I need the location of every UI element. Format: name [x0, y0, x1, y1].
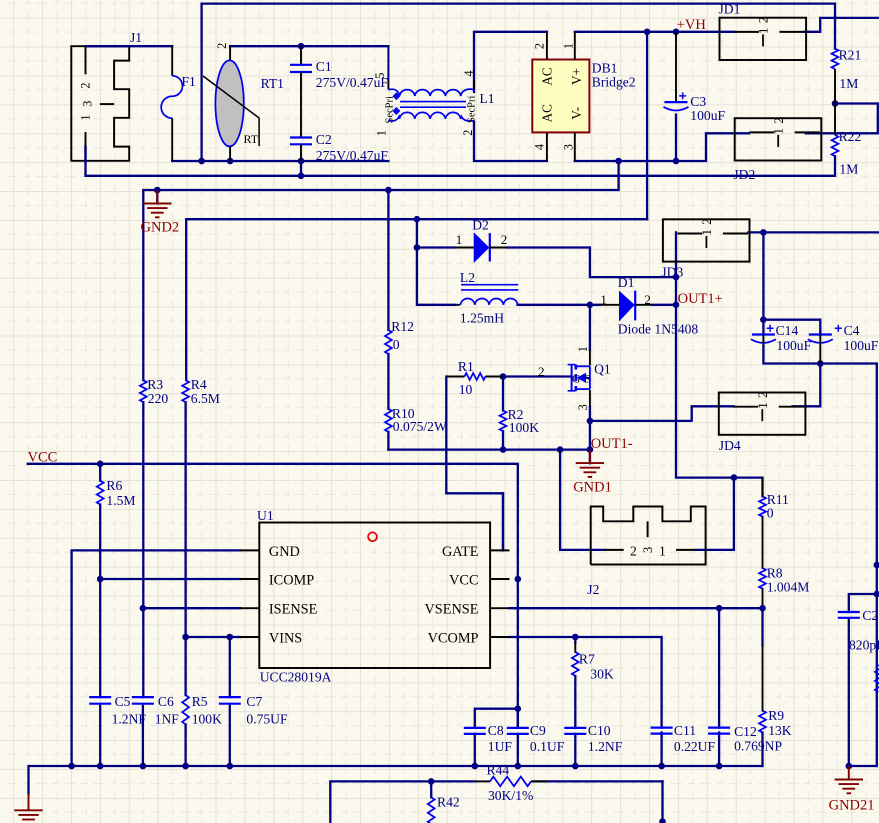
wire R8 bottom / R9 top joint	[762, 589, 764, 609]
resistor R4	[182, 377, 220, 406]
svg-text:+VH: +VH	[677, 17, 707, 33]
svg-text:C2: C2	[862, 608, 878, 623]
svg-text:4: 4	[462, 71, 476, 77]
wire Q1 source to OUT1- junction	[589, 391, 591, 407]
svg-text:U1: U1	[257, 508, 274, 523]
resistor R1	[446, 359, 503, 397]
svg-text:100K: 100K	[509, 420, 539, 435]
svg-text:30K: 30K	[590, 667, 614, 682]
wire GND1 stub	[589, 450, 591, 464]
svg-text:1: 1	[755, 402, 770, 409]
svg-text:R6: R6	[106, 478, 122, 493]
wire VCC pin stub link and column down to C9	[517, 579, 519, 728]
capacitor C14	[751, 323, 812, 353]
svg-text:2: 2	[538, 364, 545, 379]
wire OUT1- node to GND1	[589, 421, 591, 450]
svg-text:C6: C6	[158, 694, 174, 709]
capacitor C10	[564, 723, 622, 754]
svg-text:VCC: VCC	[28, 450, 58, 466]
wire OUT1- rail R10 to GND1	[388, 448, 590, 450]
wire JD3 pin1 riser to OUT1+ and down to y477	[676, 232, 763, 496]
wire R44 feedback rail	[330, 781, 475, 823]
wire bottom ground rail	[29, 766, 763, 794]
ground GND21	[829, 766, 875, 814]
wire leg to D2 anode	[417, 246, 455, 248]
wire R9 bottom to rail	[761, 733, 763, 767]
capacitor C3	[664, 32, 726, 123]
wire VSENSE rail to R8/R9 junction	[510, 607, 763, 609]
svg-text:L2: L2	[460, 270, 475, 285]
svg-text:GND1: GND1	[573, 480, 612, 496]
wire JD2 pin2 to right edge to R21/R22 junction wire	[806, 104, 878, 134]
svg-text:100uF: 100uF	[690, 108, 725, 123]
svg-text:D2: D2	[472, 218, 489, 233]
svg-text:C8: C8	[488, 723, 504, 738]
svg-text:5: 5	[373, 73, 387, 79]
svg-text:V+: V+	[569, 68, 584, 85]
junction dots	[298, 43, 305, 50]
connector J2	[587, 507, 705, 598]
wire J2 pin1 riser from OUT1+ y477 wire	[695, 478, 734, 550]
thermistor RT1	[203, 43, 284, 161]
wire R10/R12 interlink	[387, 354, 389, 409]
svg-text:GND2: GND2	[141, 220, 180, 236]
capacitor C12	[708, 724, 782, 754]
wire JD3 pin2 to right edge	[748, 231, 879, 233]
svg-text:C2: C2	[316, 132, 332, 147]
svg-text:0.22UF: 0.22UF	[674, 739, 716, 754]
svg-text:2: 2	[215, 43, 229, 49]
svg-text:F1: F1	[182, 74, 196, 89]
svg-text:SecPri: SecPri	[467, 96, 478, 123]
wire V- junction leg down to GND2 rail	[143, 161, 618, 380]
svg-text:1: 1	[756, 27, 771, 34]
wire ISENSE pin wire	[143, 607, 240, 609]
wire R4/R5 column through VINS	[184, 402, 186, 695]
resistor R21	[832, 48, 862, 104]
resistor R22	[832, 104, 862, 177]
ground GND2	[141, 190, 180, 236]
svg-text:J1: J1	[130, 30, 142, 45]
svg-text:1: 1	[576, 346, 590, 352]
wire D1 cathode to OUT1+	[652, 304, 676, 306]
svg-text:RT: RT	[244, 132, 259, 146]
svg-text:100uF: 100uF	[776, 338, 811, 353]
svg-text:1.25mH: 1.25mH	[460, 311, 504, 326]
svg-text:1: 1	[659, 544, 666, 559]
wire ICOMP pin wire	[100, 578, 240, 580]
diode D2	[455, 218, 507, 262]
wire RT1 top to C1 to L1 pin5	[230, 45, 388, 47]
capacitor C1	[290, 46, 388, 137]
svg-text:R44: R44	[487, 763, 510, 778]
resistor R7	[572, 652, 614, 682]
wire C14/C4 bottom rail to right edge	[763, 346, 876, 766]
wire Q1 drain	[589, 305, 591, 350]
capacitor C6	[132, 694, 179, 727]
wire C5 bottom	[99, 706, 101, 766]
svg-text:GATE: GATE	[442, 544, 479, 560]
svg-text:ICOMP: ICOMP	[269, 573, 314, 589]
wire GND pin wire	[72, 550, 240, 766]
wire GATE pin riser	[502, 493, 504, 550]
svg-text:AC: AC	[540, 67, 555, 86]
svg-text:R1: R1	[458, 359, 474, 374]
resistor edge partial	[875, 665, 879, 692]
svg-text:R42: R42	[437, 795, 460, 810]
svg-text:JD4: JD4	[719, 438, 741, 453]
svg-text:C11: C11	[674, 723, 696, 738]
wire C12 column	[718, 608, 720, 727]
svg-text:JD3: JD3	[661, 265, 683, 280]
wire C14/C4 top link	[763, 320, 820, 335]
wire +VH leg down to rail219	[646, 32, 648, 219]
resistor R42	[428, 795, 460, 823]
wire J1 pin2 to fuse F1	[86, 45, 173, 47]
svg-text:VCOMP: VCOMP	[428, 631, 479, 647]
wire JD4 pin2 riser to cap bottom rail	[793, 364, 821, 407]
wire D2/L2 input leg	[417, 219, 455, 305]
svg-text:3: 3	[576, 404, 590, 410]
diode D1	[600, 275, 698, 337]
svg-text:1: 1	[79, 114, 93, 120]
wire L2 to Q1 drain / D1 anode node	[518, 304, 601, 306]
jumper JD1	[719, 2, 807, 61]
jumper JD4	[719, 392, 806, 453]
svg-text:UCC28019A: UCC28019A	[260, 670, 332, 685]
capacitor C2 input	[290, 132, 388, 163]
svg-text:C5: C5	[115, 694, 131, 709]
wire C8/C9 bottoms	[474, 734, 476, 766]
svg-text:C7: C7	[246, 694, 262, 709]
svg-text:V-: V-	[569, 107, 584, 120]
wire R12 top leg from GND2 rail	[387, 190, 389, 330]
wire L1 pin4 to DB1 pin2	[474, 32, 547, 92]
svg-text:C14: C14	[776, 323, 799, 338]
wire C8 top link from C9 column	[475, 709, 518, 728]
svg-text:3: 3	[562, 144, 576, 150]
svg-text:1M: 1M	[839, 76, 858, 91]
svg-text:J2: J2	[587, 582, 599, 597]
wire J1 pin1 bottom rail to R22 bottom	[86, 147, 836, 176]
svg-text:OUT1-: OUT1-	[591, 436, 633, 452]
svg-text:1: 1	[771, 128, 786, 135]
wire VCOMP rail to R7 and C11	[510, 637, 662, 728]
svg-text:VINS: VINS	[269, 631, 302, 647]
capacitor C5	[89, 694, 146, 727]
svg-text:1.2NF: 1.2NF	[588, 739, 623, 754]
capacitor C11	[651, 723, 716, 754]
svg-text:JD1: JD1	[719, 2, 741, 17]
wire gate drive R1 right to Q1 gate	[503, 375, 572, 377]
svg-text:4: 4	[532, 144, 546, 150]
resistor R10	[385, 406, 447, 434]
svg-text:Diode 1N5408: Diode 1N5408	[618, 322, 699, 337]
svg-text:2: 2	[644, 292, 651, 307]
wire R7 column to C10	[574, 637, 576, 643]
svg-text:DB1: DB1	[592, 61, 618, 76]
svg-text:1: 1	[562, 43, 576, 49]
svg-text:1: 1	[456, 232, 463, 247]
svg-text:VSENSE: VSENSE	[424, 602, 478, 618]
wire C14 riser from JD3 wire	[762, 232, 764, 334]
svg-text:1NF: 1NF	[155, 712, 180, 727]
svg-text:0.769NP: 0.769NP	[734, 739, 782, 754]
capacitor C8	[464, 723, 513, 754]
MOSFET Q1	[538, 346, 611, 410]
svg-text:3: 3	[641, 547, 655, 553]
svg-text:R4: R4	[191, 377, 207, 392]
resistor R2	[500, 407, 540, 435]
svg-text:220: 220	[148, 391, 169, 406]
resistor R8	[759, 566, 809, 595]
wire C3 bottom lead to V- rail	[675, 115, 677, 162]
resistor R11	[759, 478, 789, 521]
wire R2 column	[502, 377, 504, 411]
svg-text:C1: C1	[316, 59, 332, 74]
svg-text:2: 2	[755, 392, 770, 399]
svg-text:2: 2	[756, 17, 771, 24]
svg-text:R8: R8	[767, 566, 783, 581]
wire J2 pin2 riser from OUT1- rail	[560, 450, 604, 550]
wire VCC rail	[28, 464, 518, 579]
wire C2 bottom to GND21 rail	[849, 619, 877, 767]
svg-text:RT1: RT1	[261, 76, 284, 91]
svg-text:0: 0	[393, 337, 400, 352]
svg-text:2: 2	[461, 130, 475, 136]
wire DB1 pin3 V- rail to JD2 riser	[575, 133, 749, 161]
inductor L2	[455, 270, 518, 326]
svg-text:C3: C3	[690, 94, 706, 109]
fuse F1	[161, 46, 196, 161]
svg-text:30K/1%: 30K/1%	[488, 788, 533, 803]
svg-text:2: 2	[501, 232, 508, 247]
svg-text:10: 10	[459, 382, 473, 397]
resistor R3	[140, 377, 168, 406]
resistor R5	[182, 694, 222, 727]
svg-text:L1: L1	[480, 91, 495, 106]
wire C7 leg from VINS	[229, 637, 231, 697]
svg-text:OUT1+: OUT1+	[678, 291, 723, 307]
resistor R12	[385, 319, 414, 354]
wire rail 219 to R4 leg	[186, 219, 647, 380]
svg-text:C4: C4	[844, 323, 860, 338]
svg-text:ISENSE: ISENSE	[269, 602, 318, 618]
svg-text:R22: R22	[839, 129, 862, 144]
wire R6 column VCC to ICOMP to C5	[99, 464, 101, 481]
svg-text:0: 0	[767, 506, 774, 521]
svg-text:100K: 100K	[192, 712, 222, 727]
capacitor C9	[507, 723, 565, 754]
svg-text:2: 2	[532, 43, 546, 49]
svg-text:1: 1	[699, 229, 714, 236]
svg-text:R12: R12	[391, 319, 414, 334]
connector J1	[71, 30, 142, 162]
resistor R6	[97, 478, 136, 508]
capacitor C4	[808, 323, 879, 364]
svg-text:GND21: GND21	[829, 798, 875, 814]
svg-text:Q1: Q1	[594, 362, 611, 377]
common-mode choke L1	[373, 32, 495, 161]
resistor R44	[475, 763, 547, 804]
wire R42 leg	[430, 781, 432, 797]
svg-text:R21: R21	[839, 48, 862, 63]
svg-text:D1: D1	[618, 275, 635, 290]
ground bottom-left	[28, 794, 30, 811]
svg-text:100uF: 100uF	[844, 338, 879, 353]
svg-text:R3: R3	[147, 377, 163, 392]
svg-text:13K: 13K	[768, 723, 792, 738]
svg-text:C9: C9	[530, 723, 546, 738]
wire OUT1- to JD4 pin1	[590, 406, 734, 421]
capacitor C7	[219, 694, 288, 727]
svg-text:1.004M: 1.004M	[767, 580, 810, 595]
svg-text:6.5M: 6.5M	[191, 391, 220, 406]
wire GND2 stub	[156, 190, 158, 204]
svg-text:3: 3	[80, 101, 94, 107]
bridge rectifier DB1	[532, 32, 635, 161]
svg-text:AC: AC	[540, 104, 555, 123]
IC U1 UCC28019A	[240, 508, 510, 685]
svg-text:1: 1	[600, 292, 607, 307]
svg-text:275V/0.47uF: 275V/0.47uF	[316, 148, 389, 163]
svg-text:2: 2	[630, 544, 637, 559]
svg-text:SecPri: SecPri	[385, 96, 396, 123]
svg-text:0.075/2W: 0.075/2W	[393, 419, 447, 434]
wire AC rail F1/RT1/C2 bottoms to L1 pin1	[172, 160, 388, 162]
jumper JD2	[733, 117, 821, 182]
wire D2 cathode to OUT1+ node	[507, 248, 676, 278]
svg-text:GND: GND	[269, 544, 300, 560]
wire C2 bottom link between rails	[300, 161, 302, 176]
wire R1 left leg to GATE pin	[446, 377, 503, 551]
svg-text:2: 2	[771, 117, 786, 124]
svg-text:1M: 1M	[839, 162, 858, 177]
wire L1 pin2 to DB1 pin4	[474, 122, 547, 161]
wire JD1 pin2 exit right	[805, 18, 879, 32]
svg-text:1.2NF: 1.2NF	[112, 712, 147, 727]
svg-text:2: 2	[79, 82, 93, 88]
svg-text:C10: C10	[588, 723, 611, 738]
wire C2 branch from edge	[849, 594, 877, 612]
wire C10 bottom	[574, 734, 576, 766]
wire C11 bottom	[660, 733, 662, 767]
svg-text:G: G	[572, 374, 580, 386]
svg-text:R7: R7	[579, 652, 595, 667]
svg-text:0.1UF: 0.1UF	[530, 739, 565, 754]
svg-text:2: 2	[699, 218, 714, 225]
resistor R9	[759, 708, 792, 738]
ground GND1	[573, 450, 612, 496]
capacitor C2 820pF	[838, 608, 879, 653]
wire R11 bottom to R8 top	[762, 517, 764, 568]
svg-text:1UF: 1UF	[488, 739, 513, 754]
svg-text:1.5M: 1.5M	[106, 493, 135, 508]
svg-text:820pF: 820pF	[849, 638, 879, 653]
svg-text:C12: C12	[734, 724, 757, 739]
wire C9 between junction and plates	[517, 709, 519, 728]
svg-text:R5: R5	[192, 694, 208, 709]
wire top rail from vertical x201 to R21	[202, 4, 835, 161]
svg-text:VCC: VCC	[449, 573, 478, 589]
svg-text:Bridge2: Bridge2	[592, 75, 636, 90]
svg-text:0.75UF: 0.75UF	[246, 712, 288, 727]
svg-text:1: 1	[375, 130, 389, 136]
wire VINS pin wire	[186, 636, 240, 638]
svg-text:JD2: JD2	[733, 167, 755, 182]
wire R3/C6 column	[142, 402, 144, 697]
jumper JD3	[661, 218, 749, 279]
svg-text:S: S	[585, 374, 591, 386]
wire DB1 pin1 to +VH to JD1 pin1	[575, 31, 734, 33]
svg-text:R9: R9	[768, 708, 784, 723]
